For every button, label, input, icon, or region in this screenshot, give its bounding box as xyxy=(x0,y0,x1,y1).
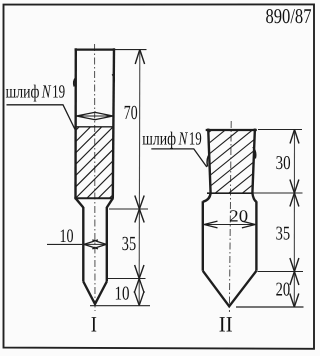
svg-text:890/87: 890/87 xyxy=(266,4,312,28)
svg-text:шлиф: шлиф xyxy=(142,130,176,150)
svg-text:N: N xyxy=(178,130,189,150)
svg-text:20: 20 xyxy=(276,279,291,300)
svg-text:II: II xyxy=(219,312,233,337)
svg-text:N: N xyxy=(41,83,52,103)
svg-text:30: 30 xyxy=(276,153,291,174)
svg-text:I: I xyxy=(91,312,97,337)
svg-text:19: 19 xyxy=(52,83,65,103)
svg-text:35: 35 xyxy=(122,233,136,255)
svg-text:шлиф: шлиф xyxy=(6,83,40,103)
svg-text:70: 70 xyxy=(124,102,138,124)
svg-text:35: 35 xyxy=(276,224,291,245)
svg-text:10: 10 xyxy=(115,283,130,304)
svg-text:20: 20 xyxy=(229,206,248,225)
svg-text:10: 10 xyxy=(60,226,74,247)
svg-text:19: 19 xyxy=(189,130,202,150)
